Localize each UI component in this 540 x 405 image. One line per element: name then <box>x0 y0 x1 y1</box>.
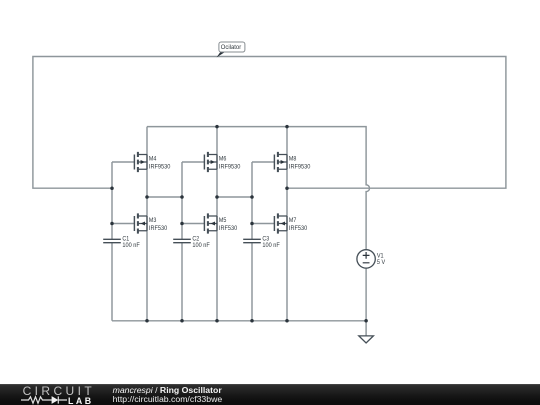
svg-text:M4: M4 <box>149 156 157 163</box>
svg-text:100 nF: 100 nF <box>192 242 210 249</box>
svg-text:100 nF: 100 nF <box>122 242 140 249</box>
svg-text:IRF530: IRF530 <box>219 225 238 232</box>
svg-text:M5: M5 <box>219 217 227 224</box>
svg-text:IRF530: IRF530 <box>149 225 168 232</box>
svg-text:Ocilator: Ocilator <box>221 44 241 51</box>
svg-text:IRF9530: IRF9530 <box>289 163 311 170</box>
svg-text:IRF530: IRF530 <box>289 225 308 232</box>
svg-text:100 nF: 100 nF <box>262 242 280 249</box>
svg-text:M7: M7 <box>289 217 297 224</box>
svg-text:IRF9530: IRF9530 <box>219 163 241 170</box>
svg-text:M6: M6 <box>219 156 227 163</box>
svg-text:IRF9530: IRF9530 <box>149 163 171 170</box>
svg-text:M3: M3 <box>149 217 157 224</box>
svg-text:M8: M8 <box>289 156 297 163</box>
svg-text:5 V: 5 V <box>377 259 386 266</box>
